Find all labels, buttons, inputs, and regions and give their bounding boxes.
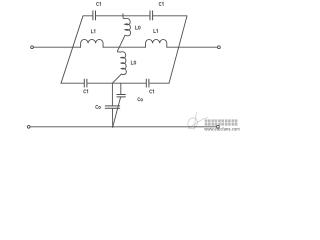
bottom lattice rail wire segments <box>61 82 169 84</box>
label L0 (lower) <box>131 61 136 64</box>
node tick on top rail <box>122 14 124 16</box>
label L1 (left) <box>91 30 95 33</box>
inductor L1 (right) <box>146 39 167 47</box>
bottom terminal (left) <box>27 125 30 128</box>
right slant wire of lattice <box>169 16 187 83</box>
wire middle segment <box>103 46 145 48</box>
left slant wire of lattice <box>61 16 83 83</box>
capacitor C0 (left) vertical lead upper <box>111 83 113 106</box>
label C1 (top-right) <box>159 2 163 5</box>
watermark character inner gaps <box>205 119 238 125</box>
output terminal (middle-right) <box>218 46 221 49</box>
capacitor C1 (top-left) plates <box>93 11 96 20</box>
label Co (right) <box>138 98 143 101</box>
label C1 (top-left) <box>96 2 100 5</box>
capacitor C1 (top-right) plates <box>150 11 153 20</box>
capacitor C0 (left) lead to ground rail <box>112 108 114 127</box>
inductor L0 (lower) coil <box>113 51 126 83</box>
bottom rail wire <box>30 126 217 128</box>
capacitor C0 (left) plates <box>105 106 119 108</box>
capacitor C1 (bottom-left) plates <box>84 79 87 87</box>
watermark logo swoosh <box>186 113 207 131</box>
junction dot on bottom rail <box>112 126 114 128</box>
label C1 (bottom-left) <box>84 90 88 93</box>
label Co (left) <box>96 105 101 108</box>
inductor L0 (upper) coil <box>118 16 131 51</box>
wire to output terminal <box>167 46 218 48</box>
label L0 (upper) <box>136 26 141 29</box>
capacitor C1 (bottom-right) plates <box>146 79 149 87</box>
input terminal (middle-left) <box>31 46 34 49</box>
wire input to L1 left <box>33 46 80 48</box>
top rail wire segments <box>83 15 187 17</box>
label C1 (bottom-right) <box>150 90 154 93</box>
capacitor C0 (right) plates <box>117 95 126 97</box>
watermark Chinese character blocks <box>205 119 238 125</box>
bottom terminal (right) <box>217 125 220 128</box>
inductor L1 (left) <box>81 39 104 47</box>
capacitor C0 (right) lead slanting to ground rail <box>113 97 121 127</box>
label L1 (right) <box>154 29 158 32</box>
capacitor C0 (right) vertical lead upper <box>120 83 122 94</box>
